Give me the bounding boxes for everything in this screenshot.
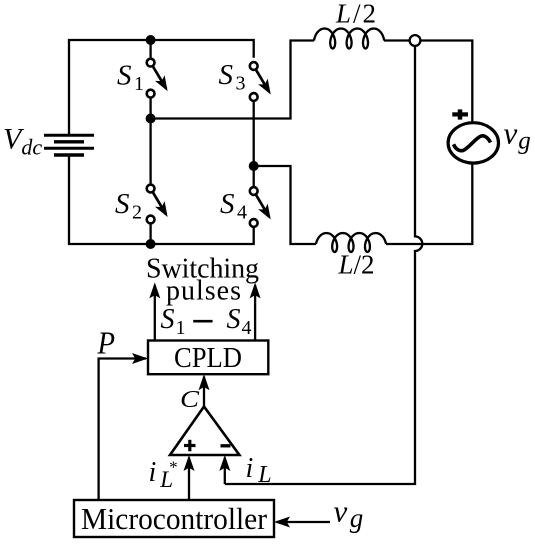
svg-text:iL*: iL* xyxy=(149,457,178,492)
svg-text:L/2: L/2 xyxy=(335,0,376,29)
svg-text:S2: S2 xyxy=(115,188,142,224)
svg-text:vg: vg xyxy=(334,494,364,534)
switch S4 xyxy=(250,187,271,227)
svg-text:L/2: L/2 xyxy=(338,250,375,280)
inductor L/2 top xyxy=(314,29,384,49)
switch S2 xyxy=(147,185,168,224)
arrow pulses right xyxy=(254,285,256,341)
svg-text:S3: S3 xyxy=(219,59,246,95)
label S1-S4 xyxy=(161,304,252,339)
wire iL arrow into comparator minus xyxy=(224,458,226,485)
CPLD box xyxy=(148,341,268,375)
comparator U1 xyxy=(170,407,239,456)
wire iL sense line with hop xyxy=(225,46,423,484)
svg-text:S4: S4 xyxy=(227,304,252,339)
wire vg bottom to bottom inductor xyxy=(386,163,472,244)
svg-text:CPLD: CPLD xyxy=(174,342,242,374)
switch S3 xyxy=(250,62,271,101)
ac source vg xyxy=(448,123,498,163)
wire S1 bottom to mid node xyxy=(149,99,151,119)
wire S2 bottom to rail xyxy=(149,224,151,244)
wire S4 leg upper xyxy=(253,166,255,186)
plus sign vg xyxy=(452,109,468,119)
wire bottom rail Vdc- to S2/S4 xyxy=(69,157,254,245)
svg-text:S4: S4 xyxy=(220,188,247,224)
wire phase B: bottom inductor to S3/S4 junction xyxy=(259,166,317,244)
wire inductor to output node xyxy=(384,39,410,41)
svg-text:C: C xyxy=(180,387,200,413)
svg-text:pulses: pulses xyxy=(166,276,241,307)
node terminal circle xyxy=(410,35,421,46)
wire S1 leg upper xyxy=(149,40,151,58)
comparator minus input label xyxy=(221,444,231,447)
svg-text:S1: S1 xyxy=(117,60,144,96)
wire P from microcontroller to CPLD xyxy=(99,359,146,501)
switch S1 xyxy=(147,59,168,98)
wire comparator output C to CPLD xyxy=(203,377,205,407)
wire vg input arrow to microcontroller xyxy=(277,521,331,523)
node dot S2 bottom xyxy=(146,239,156,249)
svg-text:Vdc: Vdc xyxy=(3,123,42,160)
microcontroller box xyxy=(74,500,274,537)
wire iL* arrow from microcontroller to comparator plus xyxy=(188,458,190,501)
wire phase A: S1/S2 junction to top inductor xyxy=(155,41,314,119)
svg-text:Microcontroller: Microcontroller xyxy=(81,501,268,536)
node dot S3/S4 junction xyxy=(249,161,259,171)
svg-text:S1: S1 xyxy=(161,304,186,339)
wire top rail Vdc+ to S1/S3 xyxy=(69,40,254,136)
wire node to vg top xyxy=(421,41,473,124)
wire S3 bottom to S3/S4 node xyxy=(253,102,255,166)
arrow pulses left xyxy=(154,285,156,341)
inductor L/2 bottom xyxy=(316,233,386,252)
node dot S1 top xyxy=(146,35,156,45)
node dot S1/S2 junction xyxy=(146,114,156,124)
battery Vdc xyxy=(44,135,94,155)
svg-text:iL: iL xyxy=(246,453,272,488)
comparator plus input label xyxy=(184,440,196,452)
svg-text:vg: vg xyxy=(504,116,531,155)
wire S2 leg upper xyxy=(149,119,151,184)
svg-text:P: P xyxy=(97,325,115,361)
